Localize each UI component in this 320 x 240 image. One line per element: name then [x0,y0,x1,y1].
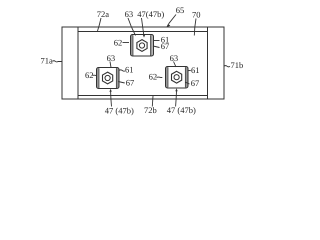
svg-text:71b: 71b [231,60,244,70]
svg-text:62: 62 [114,38,123,48]
svg-text:63: 63 [125,9,134,19]
svg-text:72a: 72a [97,9,110,19]
svg-text:67: 67 [191,78,200,88]
svg-text:71a: 71a [41,56,54,66]
svg-text:47 (47b): 47 (47b) [167,105,196,115]
svg-text:67: 67 [126,78,135,88]
svg-text:62: 62 [149,72,158,82]
svg-text:63: 63 [107,53,116,63]
svg-text:63: 63 [170,53,179,63]
svg-text:61: 61 [191,65,200,75]
svg-text:47 (47b): 47 (47b) [105,106,134,116]
svg-text:67: 67 [161,41,170,51]
svg-text:47(47b): 47(47b) [137,9,164,19]
svg-text:65: 65 [176,5,185,15]
svg-text:62: 62 [85,70,94,80]
svg-text:70: 70 [192,10,201,20]
svg-text:61: 61 [125,65,134,75]
svg-text:72b: 72b [144,105,157,115]
